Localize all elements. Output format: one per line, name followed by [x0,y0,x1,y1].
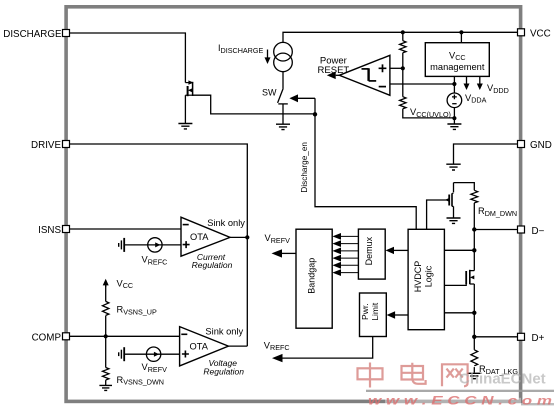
svg-text:COMP: COMP [32,332,62,343]
wire COMP pin to OTA2 [70,335,180,337]
wire rail D- to M3 [473,230,475,271]
wire D- to pin [474,229,517,231]
wire ISNS pin to OTA1 [70,228,182,230]
svg-text:Logic: Logic [424,265,434,287]
pin DRIVE [31,140,69,151]
OTA2 plus sign [182,351,189,358]
wire RVSNS_UP to COMP node [105,316,107,337]
svg-text:DRIVE: DRIVE [31,140,61,151]
wire OTA1 output [230,236,247,238]
svg-text:OTA: OTA [189,341,208,351]
ground under SW [276,124,290,129]
wire SW bottom to ground [282,104,284,124]
pin ISNS [38,225,69,236]
svg-text:VCC: VCC [530,29,551,40]
comparator minus sign [379,86,386,88]
svg-text:Regulation: Regulation [192,260,233,270]
wire D+ to pin [474,336,517,338]
arrow HVDCP to Demux [386,247,409,254]
watermark chinese character dian [402,363,426,384]
IC boundary frame [66,7,520,402]
wire VCC arrow to RVSNS_UP [105,285,107,301]
OTA2 minus sign [181,333,187,335]
block U2 VCC management [425,43,489,77]
pin D- [518,226,545,237]
wire M3 gate from HVDCP [444,278,466,286]
op-amp OTA2 voltage regulation [180,327,229,366]
svg-text:OTA: OTA [190,232,209,242]
svg-text:ChinaECNet: ChinaECNet [459,370,546,387]
svg-text:Sink only: Sink only [205,327,243,337]
wire rail M3 to D+ [473,284,475,350]
wire DISCHARGE pin to M1 drain [70,33,186,83]
wire VREFC from Pwr Limit [282,337,373,359]
arrow VDDD 2 [477,76,483,90]
ground under RDAT_LKG [467,373,481,378]
svg-text:Pwr.: Pwr. [360,303,370,320]
svg-text:D−: D− [532,226,545,237]
svg-text:w w w . E C C N . c o m: w w w . E C C N . c o m [368,393,552,407]
arrow VREFC output [272,354,283,362]
wire discharge_en vertical and to HVDCP [315,98,416,229]
wire resistor RA stubs [402,32,404,68]
wire VREFC source to OTA1 plus [125,244,181,246]
svg-text:RESET: RESET [318,65,350,76]
watermark backing over border [385,398,521,404]
pin DISCHARGE [3,29,69,40]
wire top VCC rail [283,32,518,42]
resistor RDAT_LKG [471,350,478,366]
transistor M2 DM pulldown FET [445,193,454,206]
wire M2 gate from HVDCP [427,200,449,229]
source VREFC [148,238,162,252]
wire RDM_DWN to D- node [473,203,475,230]
transistor M1 discharge FET [185,80,193,96]
source VDDA [447,93,462,108]
I_DISCHARGE arrow [265,50,271,65]
watermark gray rule upper [366,390,554,392]
wire Vcc mgmt bottom to VDDA source [453,76,455,93]
comparator hysteresis glyph [362,68,377,81]
wire VREFV source to OTA2 plus [125,353,180,355]
comparator U1 Power RESET [339,55,390,95]
wire GND pin to ground [454,144,518,164]
ground under M1 [178,124,192,129]
wire resistor RB stubs and UVLO run [403,68,455,118]
svg-text:Bandgap: Bandgap [307,258,317,294]
watermark chinese character wang [442,364,468,386]
wire OTA2 output [228,345,247,347]
block Bandgap [296,229,332,328]
svg-text:Discharge_en: Discharge_en [300,142,309,193]
arrow VDDD 1 [464,76,470,90]
OTA1 plus sign [183,241,190,248]
wire DRIVE pin to OTA outputs bus [70,144,248,346]
VREFC source arrow [155,242,160,247]
pin GND [518,140,552,151]
svg-text:ISNS: ISNS [38,225,61,236]
bus arrows Demux to Bandgap [332,233,358,276]
svg-text:GND: GND [530,140,552,151]
source VREFV [146,347,160,361]
arrow VREFV output [272,249,283,257]
block Demux [358,229,385,279]
svg-text:HVDCP: HVDCP [413,261,423,293]
wire HVDCP to rail upper [444,249,474,251]
wire current source to SW [282,72,284,89]
SW control arrow [289,94,315,102]
wire M1 to SW bottom rail [193,95,315,114]
pin D+ [518,333,545,344]
OTA1 minus sign [183,224,189,226]
svg-text:Limit: Limit [370,302,380,321]
arrow HVDCP to Pwr Limit [387,311,409,318]
watermark gray rule lower [521,403,554,405]
wire M2 source to ground [453,206,455,217]
resistor RVSNS_DWN [102,368,108,381]
wire COMP node to RVSNS_DWN and ground [105,336,107,385]
resistor RDM_DWN [471,190,478,203]
svg-text:Regulation: Regulation [203,367,244,377]
resistor RVSNS_UP [102,301,108,315]
wire M2 drain rail [453,183,455,193]
rotated ground at VREFC [119,238,125,252]
svg-text:D+: D+ [532,333,545,344]
svg-text:SW: SW [262,87,277,97]
wire VDDA source to ground [453,108,455,124]
wire HVDCP to rail lower [444,312,474,314]
VREFV source arrow [154,352,159,357]
ground at GND pin [446,164,460,170]
wire M1 source to ground [184,95,186,123]
VCC arrow upper [103,279,109,287]
comparator output arrow [327,72,340,80]
current source I_DISCHARGE [274,42,293,71]
block HVDCP Logic [408,229,444,329]
pin VCC [518,29,551,40]
wire comparator minus input to Vcc mgmt bottom [390,83,455,85]
svg-text:Sink only: Sink only [207,218,245,228]
svg-text:management: management [430,62,485,72]
ground under RVSNS_DWN [99,385,112,390]
transistor M3 D+/D- FET [466,270,474,284]
wire RDAT_LKG to ground [473,367,475,373]
wire Vcc mgmt top stub [460,32,462,42]
svg-text:Demux: Demux [364,236,374,265]
wire VREFV from Bandgap [281,252,296,254]
wire comparator plus input [390,67,403,69]
ground under VDDA source [447,124,461,129]
ground under M2 [447,218,461,223]
pin COMP [32,332,70,343]
svg-text:DISCHARGE: DISCHARGE [3,29,62,40]
switch SW [278,88,288,104]
rotated ground at VREFV [119,347,125,361]
op-amp OTA1 current regulation [181,217,230,256]
wire RDM_DWN top link [454,183,475,191]
resistor RA (top, unnamed) [400,41,406,53]
comparator plus sign [379,64,387,72]
block Pwr Limit [360,293,387,337]
watermark chinese character zhong [358,363,383,388]
resistor RB (UVLO divider) [400,97,406,109]
